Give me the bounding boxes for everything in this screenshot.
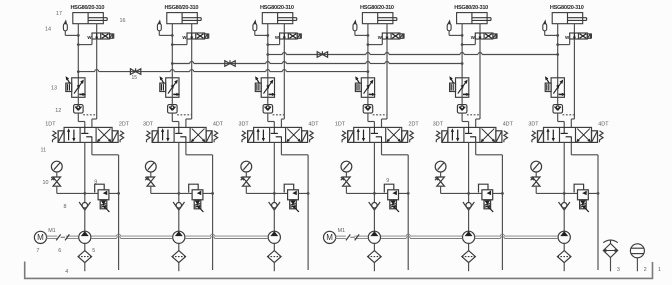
cylinder ch3 (HSG80/20-310) <box>262 13 296 24</box>
svg-text:M1: M1 <box>338 228 346 234</box>
wire gauge-relief branch ch4 <box>346 192 408 194</box>
pilot-operated solenoid valve 16 ch4 <box>368 33 404 45</box>
wire gauge-relief branch ch1 <box>57 192 119 194</box>
label solenoid 1DT ch4 <box>335 122 346 128</box>
air breather 3 <box>603 240 617 271</box>
directional control valve 11 ch6 <box>532 127 603 142</box>
directional control valve 11 ch1 <box>53 127 124 142</box>
svg-text:HSG80/20-310: HSG80/20-310 <box>70 5 104 11</box>
svg-text:8: 8 <box>64 204 67 210</box>
svg-text:HSG80/20-310: HSG80/20-310 <box>454 5 488 11</box>
gauge shutoff valve 10 ch6 <box>531 177 540 193</box>
label 9 <box>94 179 97 185</box>
check valve 12 ch3 <box>263 97 273 121</box>
label 17 <box>56 11 62 17</box>
pump 5 ch4 <box>368 231 380 243</box>
label 7 <box>36 248 39 254</box>
label cylinder type ch6 <box>550 5 584 11</box>
pilot-operated solenoid valve 16 ch6 <box>558 33 592 45</box>
label solenoid 2DT ch1 <box>119 122 130 128</box>
wire interconnect bus ch3-ch6 <box>266 53 559 56</box>
svg-text:4: 4 <box>65 269 68 275</box>
svg-text:3DT: 3DT <box>433 122 444 128</box>
svg-text:12: 12 <box>55 108 61 114</box>
svg-text:5: 5 <box>92 248 95 254</box>
coupling right <box>346 234 359 240</box>
wire dashed pilot line ch1 <box>83 114 97 116</box>
wire cap-side line ch5 <box>461 24 464 78</box>
motor M1 (left group, item 7) <box>34 231 46 243</box>
svg-text:14: 14 <box>45 27 51 33</box>
directional control valve 11 ch5 <box>436 127 507 142</box>
wire gauge-relief branch ch2 <box>151 192 213 194</box>
wire dashed pilot line ch3 <box>273 114 285 116</box>
wire rod-side line ch2 <box>186 24 192 128</box>
label cylinder type ch3 <box>260 5 294 11</box>
check valve 8 ch5 <box>463 202 474 232</box>
label 16 <box>120 18 126 24</box>
wire rod-side line ch4 <box>382 24 388 128</box>
svg-text:13: 13 <box>51 85 57 91</box>
check valve 8 ch1 <box>79 202 90 232</box>
gauge shutoff valve 10 ch5 <box>435 177 444 193</box>
label 11 <box>41 148 47 154</box>
coupling 6 left <box>56 234 69 240</box>
pressure gauge ch1 <box>51 161 62 177</box>
wire T return line ch6 <box>571 142 599 270</box>
label solenoid 4DT ch6 <box>598 122 609 128</box>
cylinder ch5 (HSG80/20-310) <box>457 13 491 24</box>
svg-text:HSG80/20-310: HSG80/20-310 <box>260 5 294 11</box>
flow control valve 13 ch1 <box>66 77 85 97</box>
wire A-port jog ch5 <box>462 122 469 128</box>
label solenoid 4DT ch5 <box>503 122 514 128</box>
bleed valve 14 ch6 <box>543 21 558 36</box>
check valve 8 ch3 <box>269 202 280 232</box>
label 4 <box>65 269 68 275</box>
flow control valve 13 ch6 <box>545 77 564 97</box>
check valve 12 ch5 <box>457 97 467 121</box>
svg-text:7: 7 <box>36 248 39 254</box>
shaft pump1-pump2-pump3 <box>91 234 268 238</box>
wire dashed pilot line ch6 <box>563 114 575 116</box>
wire dashed pilot line ch5 <box>467 114 480 116</box>
label 10 <box>43 180 49 186</box>
flow control valve 13 ch5 <box>450 77 469 97</box>
pump 5 ch2 <box>173 231 185 243</box>
wire cap-side line ch2 <box>171 24 174 78</box>
pilot-operated solenoid valve 16 ch5 <box>462 33 497 45</box>
svg-text:3: 3 <box>617 267 620 273</box>
svg-text:1DT: 1DT <box>45 122 56 128</box>
wire rod-side line ch1 <box>92 24 97 128</box>
label solenoid 3DT ch3 <box>239 122 250 128</box>
svg-text:3DT: 3DT <box>239 122 250 128</box>
label solenoid 1DT ch1 <box>45 122 56 128</box>
wire dashed pilot line ch2 <box>177 114 192 116</box>
relief valve 9 ch1 <box>95 184 110 212</box>
wire T return line ch2 <box>186 142 214 270</box>
flow control valve 13 ch3 <box>255 77 274 97</box>
svg-text:3DT: 3DT <box>143 122 154 128</box>
shaft pump4-pump5-pump6 <box>381 234 558 238</box>
label cylinder type ch2 <box>164 5 198 11</box>
label 13 <box>51 85 57 91</box>
wire rod-side line ch6 <box>571 24 574 128</box>
wire cap-side line ch6 <box>556 24 559 78</box>
directional control valve 11 ch4 <box>342 127 413 142</box>
pressure gauge ch3 <box>241 161 252 177</box>
wire cap-side line ch4 <box>367 24 370 78</box>
flow control valve 13 ch4 <box>355 77 374 97</box>
gauge shutoff valve 10 ch2 <box>145 177 154 193</box>
svg-text:3DT: 3DT <box>528 122 539 128</box>
svg-text:1: 1 <box>658 267 661 273</box>
svg-text:4DT: 4DT <box>213 122 224 128</box>
svg-text:6: 6 <box>58 248 61 254</box>
wire A-port jog ch6 <box>558 122 565 128</box>
suction filter 4 ch4 <box>368 243 382 271</box>
shutoff valve 15 (ch3-ch4 bus) <box>317 51 327 57</box>
suction filter 4 ch3 <box>268 243 282 271</box>
wire cap-side line ch1 <box>77 24 80 78</box>
wire rod-side line ch3 <box>281 24 284 128</box>
label 9 ch4 <box>386 178 389 184</box>
wire P line ch4 <box>373 142 376 202</box>
wire P line ch6 <box>563 142 566 202</box>
cylinder ch1 (HSG80/20-310) <box>73 13 107 24</box>
pressure gauge ch5 <box>435 161 446 177</box>
svg-text:17: 17 <box>56 11 62 17</box>
wire A-port jog ch2 <box>172 122 179 128</box>
relief valve 9 ch3 <box>284 184 299 212</box>
label cylinder type ch1 <box>70 5 104 11</box>
wire P line ch1 <box>83 142 86 202</box>
svg-text:M: M <box>326 233 333 242</box>
shutoff valve 15 (ch1-ch2 bus) <box>130 68 140 74</box>
label solenoid 3DT ch5 <box>433 122 444 128</box>
label solenoid 3DT ch2 <box>143 122 154 128</box>
label 8 <box>64 204 67 210</box>
suction filter 4 ch1 <box>78 243 92 271</box>
wire gauge-relief branch ch3 <box>246 192 308 194</box>
svg-text:M: M <box>37 233 44 242</box>
bleed valve 14 ch1 <box>63 21 78 36</box>
label 14 <box>45 27 51 33</box>
bleed valve 14 ch3 <box>253 21 268 36</box>
svg-text:4DT: 4DT <box>598 122 609 128</box>
svg-text:M1: M1 <box>48 228 56 234</box>
svg-text:4DT: 4DT <box>503 122 514 128</box>
wire A-port jog ch3 <box>268 122 275 128</box>
tank 1 <box>25 262 653 279</box>
label 15 <box>132 75 138 81</box>
gauge shutoff valve 10 ch3 <box>241 177 250 193</box>
label cylinder type ch4 <box>360 5 394 11</box>
label M1 left <box>48 228 56 234</box>
wire T return line ch4 <box>382 142 410 270</box>
check valve 8 ch6 <box>559 202 570 232</box>
wire T return line ch5 <box>476 142 504 270</box>
wire dashed pilot line ch4 <box>373 114 387 116</box>
svg-text:1DT: 1DT <box>335 122 346 128</box>
svg-text:4DT: 4DT <box>308 122 319 128</box>
label 1 <box>658 267 661 273</box>
shaft motor1-pump1 <box>46 236 79 238</box>
wire gauge-relief branch ch6 <box>536 192 598 194</box>
check valve 12 ch6 <box>553 97 563 121</box>
pump 5 ch3 <box>268 231 280 243</box>
wire interconnect bus ch1-ch4 <box>77 70 369 73</box>
check valve 12 ch1 <box>74 97 84 121</box>
directional control valve 11 ch2 <box>147 127 218 142</box>
suction filter 4 ch5 <box>462 243 476 271</box>
wire T return line ch1 <box>92 142 120 270</box>
cylinder ch4 (HSG80/20-310) <box>362 13 396 24</box>
label 3 <box>617 267 620 273</box>
pump 5 ch5 <box>463 231 475 243</box>
label solenoid 4DT ch2 <box>213 122 224 128</box>
relief valve 9 ch4 <box>384 184 399 212</box>
label solenoid 3DT ch6 <box>528 122 539 128</box>
label 12 <box>55 108 61 114</box>
wire P line ch2 <box>177 142 180 202</box>
pressure gauge ch6 <box>531 161 542 177</box>
check valve 12 ch2 <box>168 97 178 121</box>
wire A-port jog ch1 <box>78 122 85 128</box>
bleed valve 14 ch2 <box>157 21 172 36</box>
pressure gauge ch2 <box>145 161 156 177</box>
svg-text:15: 15 <box>132 75 138 81</box>
cylinder ch6 (HSG80/20-310) <box>552 13 586 24</box>
label 2 <box>644 267 647 273</box>
bleed valve 14 ch4 <box>353 21 368 36</box>
svg-text:2DT: 2DT <box>409 122 420 128</box>
check valve 8 ch2 <box>173 202 184 232</box>
label M1 right <box>338 228 346 234</box>
relief valve 9 ch2 <box>189 184 204 212</box>
pilot-operated solenoid valve 16 ch2 <box>172 33 208 45</box>
cylinder ch2 (HSG80/20-310) <box>167 13 201 24</box>
wire T return line ch3 <box>281 142 309 270</box>
wire A-port jog ch4 <box>368 122 375 128</box>
check valve 12 ch4 <box>363 97 373 121</box>
svg-text:9: 9 <box>94 179 97 185</box>
pilot-operated solenoid valve 16 ch3 <box>268 33 302 45</box>
svg-text:11: 11 <box>41 148 47 154</box>
wire P line ch3 <box>273 142 276 202</box>
suction filter 4 ch6 <box>557 243 571 271</box>
svg-text:HSG80/20-310: HSG80/20-310 <box>360 5 394 11</box>
flow control valve 13 ch2 <box>160 77 179 97</box>
check valve 8 ch4 <box>369 202 380 232</box>
svg-text:10: 10 <box>43 180 49 186</box>
shutoff valve 15 (ch2-ch3 bus) <box>225 60 235 66</box>
label 6 <box>58 248 61 254</box>
svg-text:9: 9 <box>386 178 389 184</box>
label 5 <box>92 248 95 254</box>
pressure gauge ch4 <box>341 161 352 177</box>
motor M1 (right group) <box>324 231 336 243</box>
relief valve 9 ch6 <box>574 184 589 212</box>
suction filter 4 ch2 <box>172 243 186 271</box>
gauge shutoff valve 10 ch1 <box>51 177 60 193</box>
svg-text:HSG80/20-310: HSG80/20-310 <box>550 5 584 11</box>
svg-text:16: 16 <box>120 18 126 24</box>
label cylinder type ch5 <box>454 5 488 11</box>
level gauge 2 <box>630 244 644 271</box>
wire P line ch5 <box>467 142 470 202</box>
pump 5 ch1 <box>79 231 91 243</box>
wire gauge-relief branch ch5 <box>441 192 503 194</box>
gauge shutoff valve 10 ch4 <box>341 177 350 193</box>
label solenoid 4DT ch3 <box>308 122 319 128</box>
svg-text:2: 2 <box>644 267 647 273</box>
directional control valve 11 ch3 <box>242 127 313 142</box>
svg-text:2DT: 2DT <box>119 122 130 128</box>
shaft motor2-pump4 <box>335 236 368 238</box>
wire cap-side line ch3 <box>266 24 269 78</box>
wire interconnect bus ch2-ch5 <box>171 62 464 65</box>
relief valve 9 ch5 <box>479 184 494 212</box>
label solenoid 2DT ch4 <box>409 122 420 128</box>
svg-text:HSG80/20-310: HSG80/20-310 <box>164 5 198 11</box>
bleed valve 14 ch5 <box>447 21 462 36</box>
pilot-operated solenoid valve 16 ch1 <box>78 33 113 45</box>
wire rod-side line ch5 <box>476 24 480 128</box>
pump 5 ch6 <box>558 231 570 243</box>
